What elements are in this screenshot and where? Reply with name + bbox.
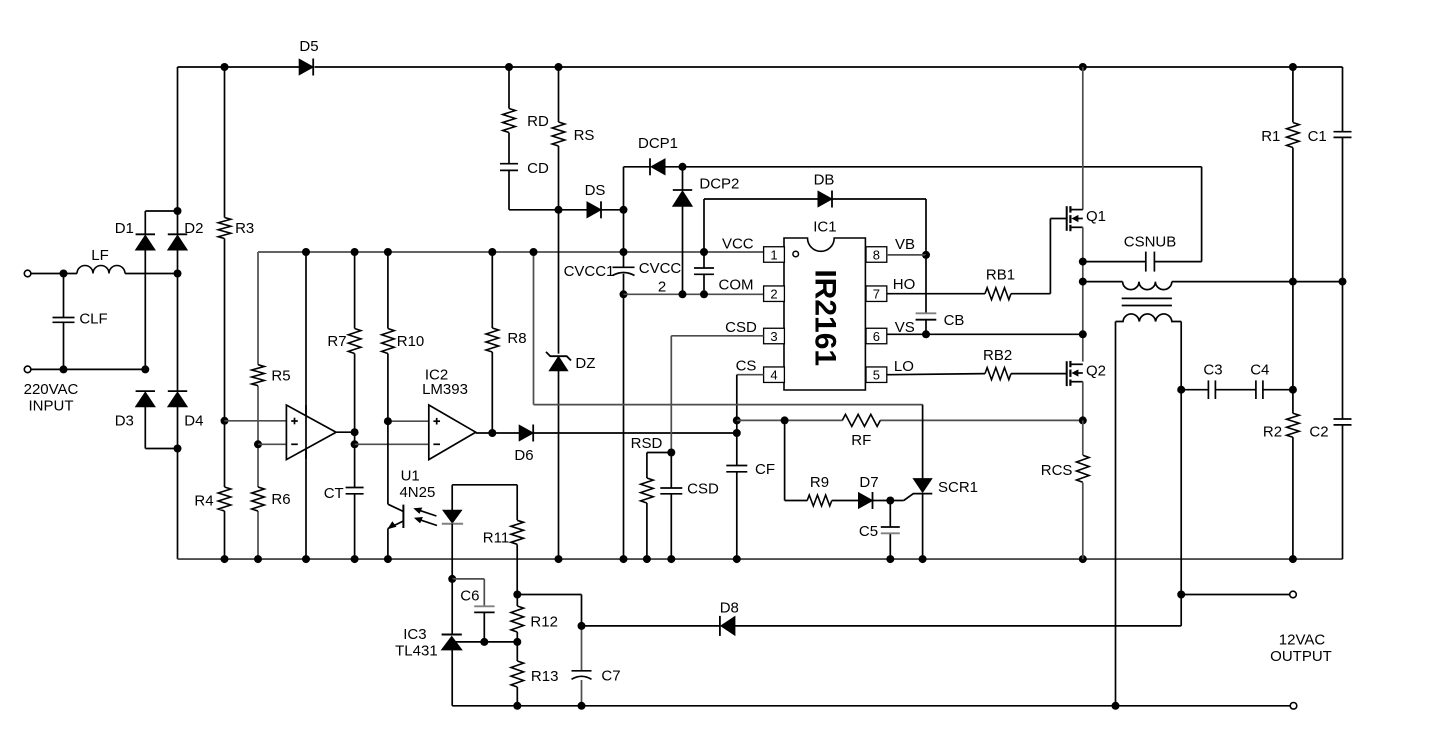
svg-text:5: 5 [873, 368, 880, 383]
capacitor C5 [881, 526, 900, 528]
wire CS to CF [736, 420, 738, 433]
junction CB at VS [922, 330, 930, 338]
terminal input line bottom [24, 366, 31, 373]
resistor RD [503, 109, 516, 133]
wire CB stem [925, 255, 927, 313]
junction DS anode node [555, 206, 563, 214]
wire HB drain upper [1082, 67, 1084, 210]
capacitor CB [916, 312, 937, 314]
svg-text:CT: CT [324, 485, 344, 502]
junction D8 tap [578, 622, 586, 630]
junction CF top node [733, 429, 741, 437]
wire riser DS to DCP1 [623, 167, 625, 210]
wire C3 line [1181, 389, 1208, 391]
svg-text:1: 1 [770, 247, 777, 262]
wire top positive rail [178, 66, 300, 68]
wire plain vertical x306 [305, 252, 307, 559]
wire DZ column [558, 210, 560, 354]
wire CSNUB left leg [1083, 261, 1146, 263]
resistor R8 [486, 328, 499, 352]
resistor R6 [252, 487, 265, 511]
svg-text:CD: CD [527, 160, 549, 177]
junction ground rail x=306 [302, 555, 310, 563]
wire riser VCC to ground [623, 210, 625, 268]
junction op2 plus tap [384, 417, 392, 425]
junction ground rail x=1082.8 [1079, 555, 1087, 563]
svg-text:CF: CF [755, 461, 775, 478]
capacitor CD [500, 163, 518, 165]
diode D5 [299, 59, 313, 75]
wire CSNUB right leg [1201, 167, 1203, 262]
wire RB1 to Q1 gate [1011, 293, 1050, 295]
svg-text:4: 4 [770, 368, 777, 383]
wire TL431 ref line [455, 641, 517, 643]
opto transistor U1 [387, 421, 389, 504]
svg-text:2: 2 [658, 279, 666, 296]
transformer primary [1123, 282, 1172, 290]
wire RF line [737, 419, 843, 421]
svg-text:D2: D2 [184, 220, 203, 237]
svg-text:RD: RD [527, 113, 549, 130]
capacitor C1 [1334, 131, 1352, 133]
svg-text:R9: R9 [810, 474, 829, 491]
wire R10 column [387, 252, 389, 329]
svg-text:R7: R7 [327, 333, 346, 350]
svg-text:R5: R5 [271, 368, 290, 385]
wire RS column [558, 67, 560, 122]
capacitor C2 [1334, 418, 1352, 420]
opto LED U1 [451, 485, 453, 511]
svg-text:4N25: 4N25 [399, 484, 435, 501]
svg-text:CSD: CSD [725, 319, 757, 336]
wire RSD branch [647, 452, 671, 454]
wire HO net [887, 293, 985, 295]
svg-text:C2: C2 [1309, 424, 1328, 441]
wire D7 to gate [873, 500, 904, 502]
junction C6 tap [448, 575, 456, 583]
svg-text:COM: COM [719, 277, 754, 294]
wire DCP2 column [682, 167, 684, 190]
capacitor C4 [1255, 380, 1257, 399]
resistor R4 [218, 487, 231, 511]
svg-text:R2: R2 [1263, 424, 1282, 441]
capacitor CT [346, 487, 364, 489]
wire D8 anode line [582, 625, 720, 627]
svg-text:DCP1: DCP1 [638, 135, 678, 152]
wire CLF stem [63, 274, 65, 318]
svg-text:D1: D1 [115, 220, 134, 237]
opto arrows [416, 509, 436, 516]
transistor Q2 [1066, 361, 1068, 386]
junction C3 tap [1177, 386, 1185, 394]
junction C7 bottom [578, 702, 586, 710]
resistor R1 [1287, 123, 1300, 148]
svg-text:U1: U1 [401, 468, 420, 485]
junction AC bottom at D1/D3 [141, 365, 149, 373]
wire VCC rail [258, 251, 764, 253]
wire D1-D2 cathode link [145, 210, 177, 212]
wire secondary return rail [452, 705, 1290, 707]
diode D1 [136, 235, 155, 250]
IC1 pin 2 box [764, 286, 785, 302]
wire C1-C2 column [1342, 67, 1344, 132]
svg-text:Q1: Q1 [1086, 208, 1106, 225]
wire charge pump line [683, 166, 1202, 168]
wire secondary left leg [1115, 322, 1117, 706]
wire ground rail [178, 558, 1343, 560]
wire R3-R4 column [224, 67, 226, 218]
wire R5-R6 column [257, 252, 259, 365]
resistor RCS [1077, 455, 1090, 482]
shunt regulator IC3 TL431 [451, 579, 453, 635]
junction R7 top [351, 248, 359, 256]
junction ground rail x=736.8 [733, 555, 741, 563]
junction ground rail x=671.3 [667, 555, 675, 563]
svg-text:RB2: RB2 [983, 347, 1012, 364]
junction R8 top [488, 248, 496, 256]
wire C4 to R2 [1263, 389, 1293, 391]
diode D4 [168, 392, 187, 407]
wire primary feed [1083, 281, 1123, 283]
svg-text:C4: C4 [1250, 362, 1269, 379]
resistor R2 [1287, 413, 1300, 437]
junction output tap [1177, 591, 1185, 599]
svg-text:R3: R3 [235, 220, 254, 237]
junction op1 feedback [351, 440, 359, 448]
wire AC bottom [31, 368, 145, 370]
svg-text:DCP2: DCP2 [699, 176, 739, 193]
junction CLF bottom [60, 365, 68, 373]
junction op1 minus tap [254, 440, 262, 448]
junction RF at HB [1079, 416, 1087, 424]
junction x306 top [302, 248, 310, 256]
diode D7 [859, 493, 873, 509]
thyristor SCR1 [922, 405, 924, 479]
capacitor C7 [572, 670, 592, 672]
zener DZ [549, 357, 567, 371]
svg-text:D7: D7 [859, 474, 878, 491]
svg-text:LF: LF [91, 247, 109, 264]
svg-text:DB: DB [814, 172, 835, 189]
svg-text:CSNUB: CSNUB [1124, 234, 1177, 251]
junction top rail at R3 [221, 63, 229, 71]
junction DS cathode node [620, 206, 628, 214]
junction CSNUB left node [1079, 258, 1087, 266]
junction top rail at Q1 drain [1079, 63, 1087, 71]
svg-text:Q2: Q2 [1086, 363, 1106, 380]
junction ground rail x=387.9 [384, 555, 392, 563]
capacitor C6 [474, 605, 494, 607]
svg-text:C3: C3 [1203, 362, 1222, 379]
svg-text:RB1: RB1 [986, 267, 1015, 284]
wire op2 plus input [388, 420, 439, 422]
transformer core [1122, 297, 1172, 299]
resistor RSD [641, 478, 654, 503]
svg-text:3: 3 [770, 329, 777, 344]
junction RF at R9 [781, 416, 789, 424]
svg-text:DZ: DZ [575, 355, 595, 372]
junction C6 bottom [480, 638, 488, 646]
diode DCP1 [651, 159, 665, 175]
capacitor CLF [53, 317, 75, 319]
wire HB lower [1082, 382, 1084, 421]
svg-text:R13: R13 [531, 668, 559, 685]
wire R7 column [354, 252, 356, 329]
junction AC top at D2 [174, 270, 182, 278]
resistor R9 [807, 495, 832, 506]
junction top rail at RD [505, 63, 513, 71]
resistor RB2 [985, 368, 1011, 380]
resistor R11 [511, 520, 524, 544]
resistor R12 [511, 606, 524, 632]
wire LO net [887, 374, 985, 375]
wire output line [1181, 594, 1289, 596]
wire C3-C4 link [1215, 389, 1256, 391]
wire RB2 to Q2 gate [1011, 373, 1067, 375]
svg-text:RCS: RCS [1041, 462, 1073, 479]
wire CS net [737, 374, 764, 376]
wire VB net [887, 254, 926, 256]
capacitor CVCC2 [694, 267, 714, 269]
IC1 pin 8 box [866, 247, 887, 263]
wire R8 column [491, 252, 493, 328]
svg-text:INPUT: INPUT [29, 398, 74, 415]
wire HB midpoint [1082, 227, 1084, 361]
junction D7-C5 node [886, 497, 894, 505]
resistor R7 [348, 329, 361, 354]
junction ground rail x=258 [254, 555, 262, 563]
svg-text:2: 2 [770, 287, 777, 302]
svg-text:6: 6 [873, 329, 880, 344]
wire C7 column [581, 626, 583, 671]
junction primary top at HB [1079, 278, 1087, 286]
junction CS-RF node [733, 416, 741, 424]
svg-text:HO: HO [893, 276, 916, 293]
junction D6 anode node [488, 429, 496, 437]
svg-text:R6: R6 [271, 491, 290, 508]
svg-text:SCR1: SCR1 [938, 479, 978, 496]
junction DCP2 at COM [679, 290, 687, 298]
wire x306 through op1 [305, 405, 307, 459]
wire CSD cap stem [670, 453, 672, 489]
resistor RB1 [985, 288, 1011, 300]
terminal input line top [24, 270, 31, 277]
junction R13 bottom [513, 702, 521, 710]
svg-text:RSD: RSD [631, 435, 663, 452]
junction ground rail x=922.6 [919, 555, 927, 563]
svg-text:R8: R8 [507, 330, 526, 347]
IC1 pin 5 box [866, 367, 887, 383]
junction CVCC2 at COM [700, 290, 708, 298]
junction CLF top [60, 270, 68, 278]
wire DB anode line [704, 198, 818, 200]
svg-text:CB: CB [944, 312, 965, 329]
wire secondary right leg [1180, 322, 1182, 595]
capacitor C3 [1207, 380, 1209, 399]
junction ground rail x=890.3 [886, 555, 894, 563]
junction secondary rail at transformer [1112, 702, 1120, 710]
svg-text:CS: CS [736, 358, 757, 375]
svg-text:R12: R12 [530, 614, 558, 631]
wire VS net [887, 333, 1083, 335]
diode D3 [136, 392, 155, 407]
diode DB [818, 191, 832, 207]
wire DB feed column [703, 199, 705, 268]
wire R11 column [516, 485, 518, 520]
terminal 12VAC out top [1290, 591, 1297, 598]
wire DCP1 anode [665, 166, 683, 168]
svg-text:8: 8 [873, 247, 880, 262]
wire R1-R2 column [1292, 67, 1294, 122]
IC1 pin 3 box [764, 328, 785, 344]
wire C5 stem [889, 501, 891, 528]
diode D6 [519, 425, 533, 441]
svg-text:LM393: LM393 [422, 381, 468, 398]
capacitor CVCC1 [613, 266, 635, 268]
wire R9 drop [784, 420, 786, 500]
IC1 pin 7 box [866, 286, 887, 302]
svg-text:D6: D6 [514, 447, 533, 464]
svg-text:R4: R4 [194, 493, 213, 510]
svg-text:IR2161: IR2161 [808, 269, 841, 366]
wire AC top [31, 273, 77, 275]
inductor LF [77, 266, 125, 274]
wire DS anode [559, 209, 588, 211]
junction bridge bottom [174, 445, 182, 453]
svg-text:12VAC: 12VAC [1279, 632, 1326, 649]
op-amp IC2a [286, 405, 336, 460]
wire VCC to SCR1 [533, 252, 535, 405]
junction SCR line at VCC [530, 248, 538, 256]
svg-text:C6: C6 [460, 588, 479, 605]
resistor R3 [218, 218, 231, 239]
IC1 pin 6 box [866, 328, 887, 344]
svg-text:C7: C7 [601, 668, 620, 685]
transformer secondary [1116, 314, 1182, 322]
IC1 pin1 mark [793, 251, 799, 257]
svg-text:DS: DS [585, 182, 606, 199]
junction C4 at R2 [1289, 386, 1297, 394]
wire D6 to CF node [534, 432, 737, 434]
diode DCP2 [673, 191, 692, 206]
resistor R5 [252, 365, 265, 386]
terminal 12VAC out bottom [1290, 703, 1297, 710]
wire R12-R13 column [516, 595, 518, 607]
resistor R10 [382, 329, 395, 354]
svg-text:TL431: TL431 [395, 643, 438, 660]
junction charge pump node [679, 163, 687, 171]
transistor Q1 [1066, 206, 1068, 231]
svg-text:IC3: IC3 [403, 626, 426, 643]
capacitor CF [726, 465, 747, 467]
IC1 pin 4 box [764, 367, 785, 383]
svg-text:C1: C1 [1308, 128, 1327, 145]
wire COM rail [624, 293, 764, 295]
svg-text:D4: D4 [184, 413, 203, 430]
resistor RS [552, 122, 565, 146]
wire op1 plus input [225, 420, 297, 422]
svg-text:CSD: CSD [687, 481, 719, 498]
wire LED to R11 [452, 484, 517, 486]
junction riser at VCC [620, 248, 628, 256]
svg-text:R11: R11 [483, 529, 509, 546]
junction R10 top [384, 248, 392, 256]
junction riser at COM [620, 290, 628, 298]
svg-text:R10: R10 [397, 333, 425, 350]
wire CSD net [671, 335, 763, 337]
junction top rail at R1 [1289, 63, 1297, 71]
svg-text:D3: D3 [115, 413, 134, 430]
diode D2 [168, 235, 187, 250]
junction ground rail x=623.5 [620, 555, 628, 563]
wire right bridge column [177, 67, 179, 234]
wire op amps link [355, 443, 439, 445]
junction CSD node [667, 449, 675, 457]
op-amp IC2b [429, 405, 476, 460]
wire R12 top link [517, 594, 581, 596]
junction op1 plus tap [221, 417, 229, 425]
capacitor CSD [660, 487, 682, 489]
junction bridge top [174, 207, 182, 215]
junction VS at HB [1079, 330, 1087, 338]
svg-text:220VAC: 220VAC [24, 381, 79, 398]
junction ground rail x=224.5 [221, 555, 229, 563]
junction ground rail x=646.9 [643, 555, 651, 563]
svg-text:OUTPUT: OUTPUT [1270, 648, 1332, 665]
diode D8 [721, 617, 735, 636]
svg-text:R1: R1 [1261, 128, 1280, 145]
wire RD column [508, 67, 510, 109]
junction top rail at RS [555, 63, 563, 71]
junction ground rail x=1292.9 [1289, 555, 1297, 563]
svg-text:CVCC1: CVCC1 [564, 263, 615, 280]
wire C6 branch [452, 578, 484, 580]
junction TL431 ref node [513, 638, 521, 646]
wire op1 output [336, 431, 355, 433]
svg-text:C5: C5 [859, 523, 878, 540]
svg-text:D5: D5 [299, 38, 318, 55]
junction ground rail x=354.6 [351, 555, 359, 563]
capacitor CSNUB [1145, 252, 1147, 272]
IC IC1 body [784, 238, 865, 390]
svg-text:LO: LO [894, 358, 914, 375]
wire D8 cathode line [735, 625, 1181, 627]
resistor R13 [511, 661, 524, 687]
diode DS [587, 202, 601, 218]
svg-text:VB: VB [895, 236, 915, 253]
junction ground rail x=558.5 [555, 555, 563, 563]
wire op2 output [476, 432, 520, 434]
svg-text:7: 7 [873, 287, 880, 302]
svg-text:RF: RF [851, 432, 871, 449]
IC1 pin 1 box [764, 247, 785, 263]
junction op1 out [351, 428, 359, 436]
junction C1 bottom [1339, 278, 1347, 286]
junction DB feed at VCC [700, 248, 708, 256]
wire DCP1 cathode [624, 166, 651, 168]
junction VB node [922, 251, 930, 259]
svg-text:D8: D8 [720, 600, 739, 617]
junction R12 top [513, 591, 521, 599]
svg-text:IC1: IC1 [813, 219, 836, 236]
junction R1 bottom [1289, 278, 1297, 286]
wire RCS stem [1082, 420, 1084, 455]
svg-text:CLF: CLF [79, 311, 107, 328]
svg-text:VCC: VCC [722, 236, 754, 253]
svg-text:RS: RS [574, 127, 595, 144]
wire op1 minus input [258, 443, 297, 445]
resistor RF [842, 414, 880, 426]
